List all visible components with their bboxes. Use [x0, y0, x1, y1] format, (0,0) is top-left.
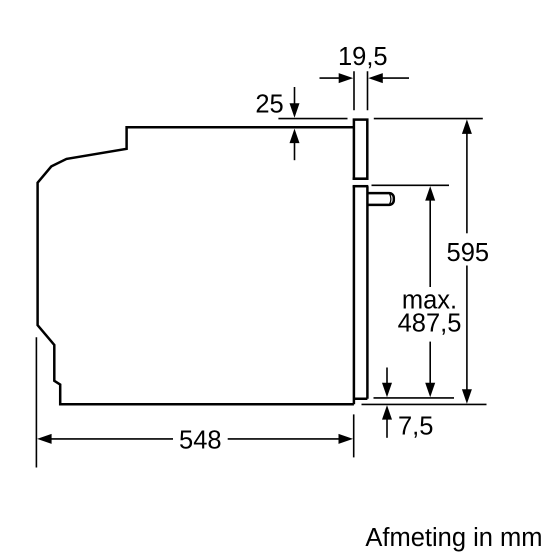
svg-text:7,5: 7,5	[398, 413, 433, 441]
svg-text:25: 25	[255, 91, 283, 119]
svg-text:19,5: 19,5	[338, 43, 388, 71]
svg-text:487,5: 487,5	[398, 310, 462, 338]
svg-text:595: 595	[447, 239, 490, 267]
svg-text:Afmeting in mm: Afmeting in mm	[365, 524, 542, 552]
svg-text:548: 548	[179, 427, 222, 455]
